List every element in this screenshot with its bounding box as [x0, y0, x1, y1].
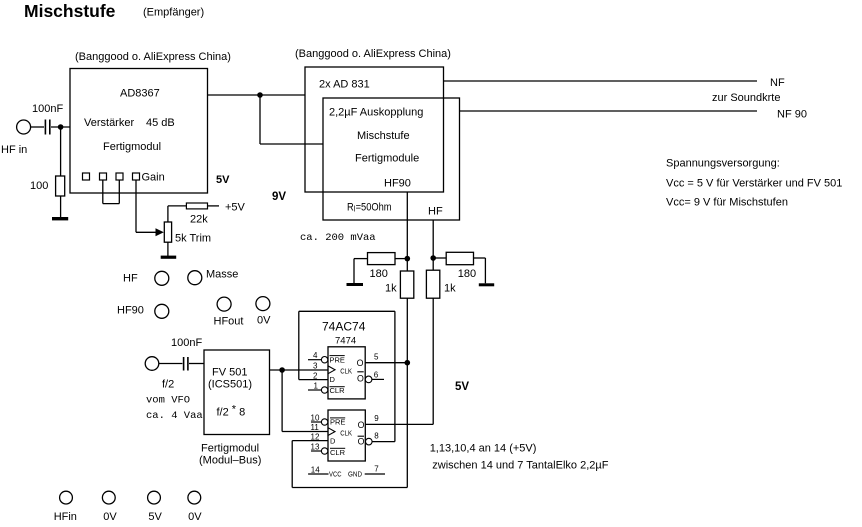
label 7474 — [335, 336, 356, 347]
svg-text:PRE: PRE — [330, 418, 345, 427]
svg-text:4: 4 — [313, 351, 318, 360]
label 22k — [190, 214, 208, 226]
svg-text:11: 11 — [311, 423, 320, 432]
label NF 90 — [777, 109, 807, 121]
label HF pin — [428, 206, 443, 218]
svg-text:CLR: CLR — [330, 386, 346, 395]
wire R5 down to FF1 Q junction — [406, 298, 408, 363]
wire junction to R4 — [433, 257, 446, 259]
label FV 501 — [212, 367, 247, 379]
connector J1 HF in — [17, 120, 31, 134]
mixer module U2 2x AD 831 — [305, 67, 444, 192]
svg-text:Mischstufe: Mischstufe — [24, 1, 116, 21]
svg-text:FV 501: FV 501 — [212, 367, 247, 379]
divider module U4 FV 501 — [204, 350, 270, 435]
capacitor C2 100nF — [184, 357, 188, 371]
svg-text:9V: 9V — [272, 191, 286, 203]
label HF pad row — [123, 273, 138, 285]
svg-text:zwischen 14 und 7 TantalElko 2: zwischen 14 und 7 TantalElko 2,2µF — [432, 460, 608, 472]
label 2,2µF Auskopplung — [329, 107, 423, 119]
junction node HF90/R3 — [405, 256, 411, 262]
ground below trimmer — [161, 256, 177, 259]
note vom VFO — [146, 395, 190, 407]
svg-text:Mischstufe: Mischstufe — [357, 130, 410, 142]
svg-text:HF90: HF90 — [117, 305, 144, 317]
svg-text:2,2µF Auskopplung: 2,2µF Auskopplung — [329, 107, 423, 119]
svg-text:5: 5 — [374, 352, 379, 361]
pin 5 Q of U5A — [357, 352, 408, 368]
resistor R4 180 — [446, 252, 473, 264]
svg-text:vom VFO: vom VFO — [146, 395, 190, 407]
note (Banggood o. AliExpress China) left — [75, 51, 231, 63]
label HFin — [54, 511, 77, 523]
svg-text:100: 100 — [30, 180, 48, 192]
svg-text:zur Soundkrte: zur Soundkrte — [712, 92, 780, 104]
wire Gain pin to trimmer wiper — [136, 180, 164, 236]
connector J2 f/2 input — [145, 357, 159, 371]
pin 12 D of U5B — [311, 433, 337, 446]
label Gain — [142, 172, 165, 184]
label 100 — [30, 180, 48, 192]
svg-text:O: O — [358, 437, 365, 447]
label 2x AD 831 — [319, 79, 370, 91]
subtitle (Empfänger) — [143, 7, 204, 19]
label HF90 pad — [117, 305, 144, 317]
svg-text:Vcc= 9 V für Mischstufen: Vcc= 9 V für Mischstufen — [666, 197, 788, 209]
label Fertigmodule — [355, 153, 419, 165]
label 5V — [216, 174, 230, 186]
ground below R1 — [52, 217, 68, 220]
note (Banggood o. AliExpress China) right — [295, 48, 451, 60]
label 74AC74 — [322, 320, 366, 334]
label Verstärker 45 dB — [84, 117, 175, 129]
svg-text:2x AD 831: 2x AD 831 — [319, 79, 370, 91]
pad 0V bottom 2 — [188, 491, 201, 504]
label f/2 * 8 — [217, 404, 246, 419]
svg-text:9: 9 — [374, 414, 379, 423]
label AD8367 — [120, 88, 160, 100]
pin pad 3 of U1 — [116, 173, 123, 180]
pin 11 CLK of U5B — [311, 423, 353, 437]
svg-text:45 dB: 45 dB — [146, 117, 175, 129]
junction node input — [58, 124, 64, 130]
svg-text:RI=50Ohm: RI=50Ohm — [347, 202, 392, 214]
wire trimmer top to R2 — [168, 206, 187, 222]
svg-text:180: 180 — [458, 268, 476, 280]
svg-text:74AC74: 74AC74 — [322, 320, 366, 334]
amplifier module U1 AD8367 — [70, 69, 208, 194]
mixer module U3 box — [323, 98, 460, 220]
wire HF pin down — [432, 220, 434, 270]
svg-text:5V: 5V — [216, 174, 230, 186]
label 1k right — [444, 283, 456, 295]
svg-text:ca. 200 mVaa: ca. 200 mVaa — [300, 232, 376, 244]
junction node HF/R4 — [430, 255, 436, 261]
pin 1 CLR of U5A — [308, 381, 345, 395]
note Spannungsversorgung — [666, 158, 780, 170]
svg-text:NF: NF — [770, 77, 785, 89]
pin 9 Q of U5B — [358, 414, 380, 430]
svg-text:f/2: f/2 — [162, 379, 174, 391]
label 180 left — [370, 268, 388, 280]
svg-text:O: O — [358, 420, 365, 430]
label 1k left — [385, 283, 397, 295]
label zur Soundkrte — [712, 92, 780, 104]
ground below R3 — [347, 283, 364, 286]
svg-text:Fertigmodul: Fertigmodul — [201, 443, 259, 455]
pin 7 GND of U5 — [348, 465, 385, 479]
wire R3 to junction — [395, 258, 407, 260]
resistor R6 1k right — [426, 270, 439, 298]
wire R3 to ground — [354, 259, 368, 283]
svg-text:Fertigmodule: Fertigmodule — [355, 153, 419, 165]
label 0V — [257, 315, 271, 327]
pad 0V bottom 1 — [102, 491, 115, 504]
svg-text:5V: 5V — [148, 511, 162, 522]
svg-text:(Empfänger): (Empfänger) — [143, 7, 204, 19]
svg-text:0V: 0V — [103, 511, 117, 522]
note zwischen 14 und 7 TantalElko 2,2µF — [432, 460, 608, 472]
junction node U4 out — [279, 367, 285, 373]
svg-text:5V: 5V — [455, 381, 469, 393]
label 100nF second — [171, 337, 202, 349]
label 5V bold — [455, 381, 469, 393]
pad HFin bottom — [60, 491, 73, 504]
svg-text:1k: 1k — [385, 283, 397, 295]
pad HF90 — [155, 304, 169, 318]
wire junction down to FF2 CLK — [282, 370, 328, 432]
svg-text:2: 2 — [313, 371, 318, 380]
svg-text:22k: 22k — [190, 214, 208, 226]
label 100nF — [32, 103, 63, 115]
svg-text:100nF: 100nF — [32, 103, 63, 115]
wire C2 to U4 — [189, 363, 204, 365]
svg-text:PRE: PRE — [330, 355, 345, 364]
pin 4 PRE of U5A — [308, 351, 345, 364]
wire J2 to C2 — [159, 363, 183, 365]
pad HFout — [217, 297, 231, 311]
resistor R3 180 — [368, 253, 396, 265]
svg-text:100nF: 100nF — [171, 337, 202, 349]
svg-text:O: O — [357, 358, 364, 368]
resistor R1 100 — [56, 176, 65, 196]
wire junction down to mixer B input — [260, 95, 323, 144]
svg-text:HF in: HF in — [1, 144, 27, 156]
wire R6 down to FF2 pin9 — [365, 298, 433, 424]
svg-text:HF90: HF90 — [384, 178, 411, 190]
svg-text:13: 13 — [311, 443, 320, 452]
wire U4 output to FF1 CLK — [270, 369, 329, 371]
svg-text:1,13,10,4 an 14 (+5V): 1,13,10,4 an 14 (+5V) — [430, 443, 537, 455]
label HF in — [1, 144, 27, 156]
svg-text:CLK: CLK — [340, 428, 352, 437]
label 0V bottom 1 — [103, 511, 117, 523]
wire FF1 Q loop to FF2 D — [292, 363, 407, 488]
wire U1 output to mixer — [208, 94, 306, 96]
svg-text:ca. 4 Vaa: ca. 4 Vaa — [146, 410, 203, 422]
label Masse — [206, 269, 238, 281]
junction node FF1 Q — [405, 360, 411, 366]
flip-flop U5A box — [328, 347, 365, 399]
svg-text:HF: HF — [123, 273, 138, 285]
svg-text:(Banggood o. AliExpress China): (Banggood o. AliExpress China) — [75, 51, 231, 63]
svg-text:6: 6 — [374, 370, 379, 379]
svg-text:8: 8 — [374, 432, 379, 441]
pin pad 1 of U1 — [83, 173, 90, 180]
wire HF90 pin down — [406, 192, 408, 271]
label 9V — [272, 191, 286, 203]
svg-text:HF: HF — [428, 206, 443, 218]
note 1,13,10,4 an 14 (+5V) — [430, 443, 537, 455]
label HFout — [214, 316, 244, 328]
pad Masse — [188, 271, 202, 285]
label 0V bottom 2 — [188, 511, 202, 523]
pin 14 VCC of U5 — [308, 465, 342, 478]
svg-text:GND: GND — [348, 469, 362, 478]
label NF — [770, 77, 785, 89]
svg-text:(ICS501): (ICS501) — [208, 379, 252, 391]
svg-text:Gain: Gain — [142, 172, 165, 184]
flip-flop U5B box — [328, 410, 365, 461]
svg-text:Masse: Masse — [206, 269, 238, 281]
wire junction down to R1 — [60, 127, 62, 176]
svg-text:7474: 7474 — [335, 336, 356, 347]
pin 13 CLR of U5B — [311, 443, 346, 457]
label +5V — [225, 202, 246, 214]
ground below R4 — [479, 283, 494, 286]
wire C1 to U1 input — [51, 126, 70, 128]
wire R1 to ground — [60, 196, 62, 218]
trimmer RV1 5k Trim — [164, 222, 171, 242]
capacitor C1 100nF — [45, 120, 49, 135]
svg-text:+5V: +5V — [225, 202, 246, 214]
svg-text:f/2 * 8: f/2 * 8 — [217, 404, 246, 419]
resistor R2 22k — [186, 203, 207, 209]
label 5V bottom — [148, 511, 162, 523]
wire FF2 Q̄ feedback to FF1 D — [299, 311, 395, 441]
svg-text:D: D — [330, 375, 336, 384]
label Fertigmodul second — [201, 443, 259, 455]
svg-text:3: 3 — [313, 362, 318, 371]
pin pad 4 Gain of U1 — [133, 173, 140, 180]
pad HF — [155, 271, 169, 285]
pin 8 Q̄ of U5B — [358, 432, 380, 447]
svg-text:CLK: CLK — [340, 367, 352, 376]
svg-text:Spannungsversorgung:: Spannungsversorgung: — [666, 158, 780, 170]
svg-text:O: O — [357, 374, 364, 384]
svg-text:HFin: HFin — [54, 511, 77, 522]
note ca. 4 Vaa — [146, 410, 203, 422]
note Vcc 5V — [666, 178, 842, 190]
label (ICS501) — [208, 379, 252, 391]
label Fertigmodul — [103, 141, 161, 153]
svg-text:0V: 0V — [188, 511, 202, 522]
svg-text:0V: 0V — [257, 315, 271, 327]
wire strap pins 2-3 — [103, 180, 120, 204]
pin 10 PRE of U5B — [311, 414, 346, 427]
pad 5V bottom — [148, 491, 161, 504]
svg-text:Fertigmodul: Fertigmodul — [103, 141, 161, 153]
junction node mixer input — [257, 92, 263, 98]
svg-text:10: 10 — [311, 414, 320, 423]
svg-text:7: 7 — [374, 465, 379, 474]
pin 2 D of U5A — [313, 371, 336, 383]
svg-text:NF 90: NF 90 — [777, 109, 807, 121]
svg-text:5k Trim: 5k Trim — [175, 233, 211, 245]
wire J1 to C1 — [31, 126, 44, 128]
label Mischstufe — [357, 130, 410, 142]
svg-text:180: 180 — [370, 268, 388, 280]
note ca. 200 mVaa — [300, 232, 376, 244]
svg-text:VCC: VCC — [329, 469, 342, 478]
label Ri=50Ohm — [347, 202, 392, 214]
wire trimmer bottom to ground — [167, 242, 169, 256]
svg-text:Verstärker: Verstärker — [84, 117, 134, 129]
wire NF 90 output — [460, 110, 758, 112]
label f/2 — [162, 379, 174, 391]
label 180 right — [458, 268, 476, 280]
wire R2 to +5V — [208, 205, 220, 207]
svg-text:(Banggood o. AliExpress China): (Banggood o. AliExpress China) — [295, 48, 451, 60]
label (Modul-Bus) — [199, 455, 261, 467]
svg-text:14: 14 — [311, 465, 320, 474]
wire R4 to ground — [474, 258, 486, 283]
svg-text:CLR: CLR — [330, 448, 346, 457]
resistor R5 1k left — [400, 271, 413, 298]
svg-text:HFout: HFout — [214, 316, 244, 328]
pin 3 CLK of U5A — [313, 362, 352, 376]
title Mischstufe — [24, 1, 116, 21]
pin 6 Q̄ of U5A — [357, 370, 384, 383]
svg-text:1k: 1k — [444, 283, 456, 295]
svg-text:Vcc = 5 V für Verstärker und F: Vcc = 5 V für Verstärker und FV 501 — [666, 178, 842, 190]
svg-text:1: 1 — [314, 381, 319, 390]
wire NF output — [444, 80, 758, 82]
note Vcc 9V — [666, 197, 788, 209]
pin pad 2 of U1 — [100, 173, 107, 180]
svg-text:12: 12 — [311, 433, 320, 442]
label HF90 pin — [384, 178, 411, 190]
svg-text:(Modul–Bus): (Modul–Bus) — [199, 455, 261, 467]
label 5k Trim — [175, 233, 211, 245]
pad 0V — [256, 297, 270, 311]
svg-text:AD8367: AD8367 — [120, 88, 160, 100]
svg-text:D: D — [330, 436, 336, 445]
